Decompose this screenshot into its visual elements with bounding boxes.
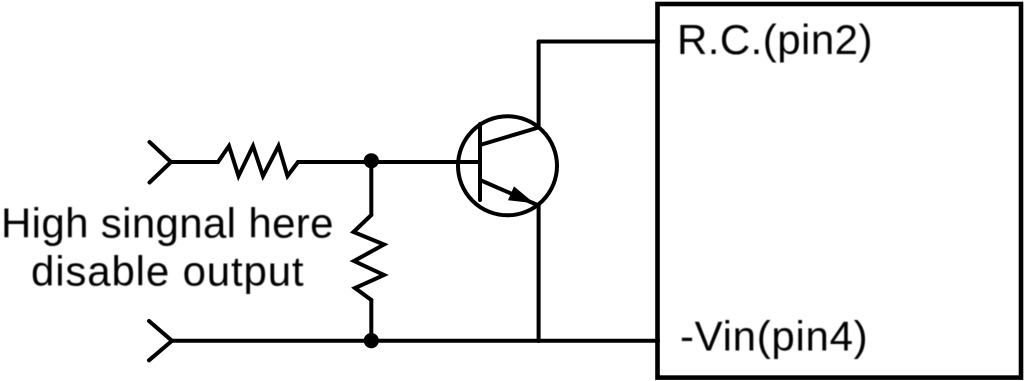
transistor Q1 — [458, 116, 557, 215]
svg-text:High singnal here: High singnal here — [1, 200, 334, 247]
svg-text:disable output: disable output — [31, 248, 304, 295]
resistor R1 — [218, 146, 298, 176]
IC box U1 — [658, 4, 1022, 378]
wire — [539, 40, 658, 44]
node junction dot top — [364, 153, 379, 168]
emitter arrow — [509, 187, 533, 202]
resistor R2 — [354, 215, 385, 300]
svg-text:-Vin(pin4): -Vin(pin4) — [680, 313, 868, 360]
wire — [537, 42, 541, 128]
wire — [298, 160, 480, 164]
wire — [171, 160, 218, 164]
wire — [369, 300, 373, 341]
wire — [369, 161, 373, 215]
svg-text:R.C.(pin2): R.C.(pin2) — [677, 16, 873, 63]
wire — [537, 205, 541, 341]
node junction dot bottom — [364, 333, 379, 348]
wire — [172, 339, 658, 343]
input chevron top — [150, 142, 172, 183]
input chevron bottom — [149, 321, 172, 360]
